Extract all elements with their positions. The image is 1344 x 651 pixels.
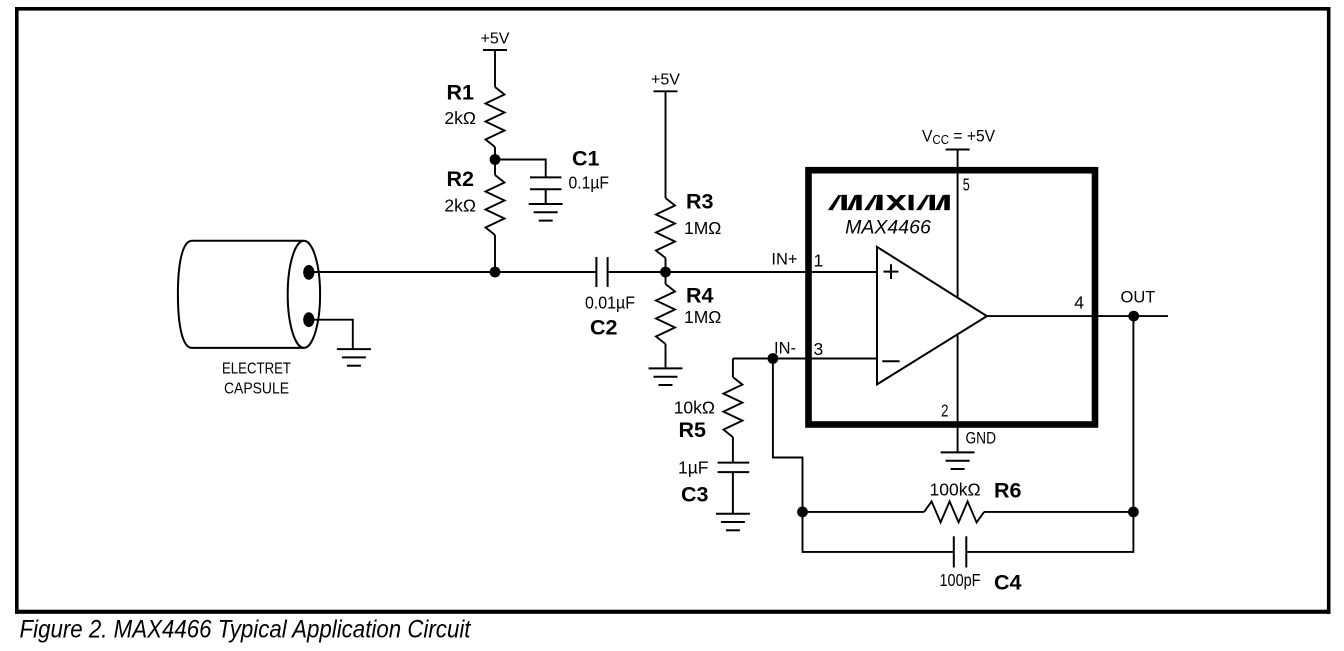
- wire: R6 to right junction: [984, 511, 1133, 513]
- wire: C4 branch right up to OUT: [966, 316, 1133, 552]
- label 100pF (C4): [940, 570, 981, 590]
- svg-text:0.01µF: 0.01µF: [585, 293, 635, 313]
- svg-text:OUT: OUT: [1121, 289, 1156, 307]
- pin 4: [1074, 293, 1084, 313]
- label ELECTRET CAPSULE: [222, 361, 291, 398]
- resistor R6: [924, 501, 984, 522]
- wire: output pin 4 to OUT: [987, 315, 1168, 317]
- svg-text:3: 3: [814, 339, 824, 359]
- label +5V (R1 supply): [481, 31, 510, 48]
- label +5V (R3 supply): [651, 72, 680, 89]
- wire junction to C1: [495, 160, 546, 178]
- node: feedback left junction: [797, 507, 808, 518]
- svg-text:IN+: IN+: [771, 251, 797, 269]
- wire VCC vertical (pin 5): [957, 150, 959, 453]
- caption: Figure 2. MAX4466 Typical Application Circuit: [20, 616, 472, 644]
- ground (R4): [649, 368, 683, 385]
- wire: C2 to IN+ pin: [608, 271, 877, 273]
- label 0.01uF (C2): [585, 293, 635, 313]
- node: R2 bottom / signal wire junction: [490, 267, 501, 278]
- label VCC = +5V: [922, 127, 995, 147]
- resistor R5: [723, 359, 742, 463]
- op-amp U1 package box (MAX4466): [809, 170, 1096, 424]
- wire electret bottom pin to ground: [309, 320, 353, 349]
- svg-text:10kΩ: 10kΩ: [674, 398, 715, 418]
- svg-text:1: 1: [814, 251, 824, 271]
- pin 2: [941, 401, 949, 421]
- resistor R3: [656, 198, 675, 272]
- svg-text:2kΩ: 2kΩ: [444, 196, 476, 216]
- node: OUT junction: [1128, 311, 1139, 322]
- capacitor C4: [954, 536, 967, 567]
- label OUT: [1121, 289, 1156, 307]
- pin 3: [814, 339, 824, 359]
- label 2kOhm (R1): [444, 108, 476, 128]
- svg-text:4: 4: [1074, 293, 1084, 313]
- svg-text:ELECTRET: ELECTRET: [222, 361, 291, 378]
- VCC supply bar: [946, 149, 970, 151]
- label 100kOhm (R6): [930, 480, 981, 500]
- label R6: [994, 479, 1022, 503]
- svg-text:GND: GND: [966, 430, 997, 448]
- svg-text:R6: R6: [994, 479, 1022, 503]
- electret terminal pin (bottom, ground): [303, 312, 314, 327]
- svg-text:C4: C4: [994, 571, 1022, 595]
- label R5: [679, 418, 707, 442]
- svg-text:+5V: +5V: [481, 31, 510, 48]
- svg-text:R2: R2: [447, 167, 475, 191]
- ground (electret): [337, 349, 371, 366]
- label C2: [590, 316, 618, 340]
- capacitor C3: [718, 463, 750, 514]
- label R3: [686, 190, 714, 214]
- minus input marker: [882, 360, 899, 362]
- electret terminal pin (top, signal): [303, 265, 314, 280]
- label C1: [572, 147, 600, 171]
- wire: C4 branch left: [803, 512, 954, 552]
- label C3: [681, 483, 709, 507]
- svg-text:2kΩ: 2kΩ: [444, 108, 476, 128]
- label C4: [994, 571, 1022, 595]
- resistor R1: [486, 87, 505, 160]
- svg-text:R4: R4: [686, 284, 714, 308]
- node: IN- junction: [768, 353, 779, 364]
- label 0.1uF (C1): [569, 173, 610, 193]
- wire: feedback node to R6: [803, 511, 925, 513]
- pin 1: [814, 251, 824, 271]
- capacitor C1: [530, 177, 562, 204]
- supply +5V (R1 top): [483, 50, 507, 87]
- label 2kOhm (R2): [444, 196, 476, 216]
- label 1uF (C3): [678, 458, 709, 478]
- wire: IN- junction down to feedback node: [773, 359, 803, 512]
- svg-text:R3: R3: [686, 190, 714, 214]
- op-amp triangle: [877, 247, 987, 385]
- MAXIM logo: [828, 195, 950, 210]
- electret capsule body: [178, 241, 320, 348]
- wire: signal line electret to C2: [309, 271, 597, 273]
- capacitor C2: [596, 257, 607, 287]
- svg-text:100kΩ: 100kΩ: [930, 480, 981, 500]
- node: R3/R4/signal junction: [660, 267, 671, 278]
- svg-text:C3: C3: [681, 483, 709, 507]
- svg-text:1MΩ: 1MΩ: [684, 218, 721, 238]
- label IN+: [771, 251, 797, 269]
- svg-text:2: 2: [941, 401, 949, 421]
- ground (C1): [529, 204, 563, 221]
- svg-text:MAX4466: MAX4466: [845, 217, 931, 239]
- wire: IN- net: [733, 358, 877, 360]
- svg-text:R1: R1: [447, 81, 475, 105]
- resistor R4: [656, 272, 675, 368]
- svg-text:0.1µF: 0.1µF: [569, 173, 610, 193]
- resistor R2: [486, 160, 505, 273]
- svg-text:C2: C2: [590, 316, 618, 340]
- svg-text:Figure 2. MAX4466 Typical Appl: Figure 2. MAX4466 Typical Application Ci…: [20, 616, 472, 644]
- label MAX4466: [845, 217, 931, 239]
- label R1: [447, 81, 475, 105]
- ground (C3): [716, 514, 750, 531]
- label 1MOhm (R4): [684, 307, 721, 327]
- pin 5: [963, 175, 970, 195]
- svg-text:1MΩ: 1MΩ: [684, 307, 721, 327]
- label GND: [966, 430, 997, 448]
- label R4: [686, 284, 714, 308]
- node: feedback right junction: [1128, 507, 1139, 518]
- svg-text:100pF: 100pF: [940, 570, 981, 590]
- svg-text:+5V: +5V: [651, 72, 680, 89]
- ground (GND pin): [941, 452, 975, 469]
- label 1MOhm (R3): [684, 218, 721, 238]
- node: R1/R2/C1 junction: [490, 154, 501, 165]
- svg-text:C1: C1: [572, 147, 600, 171]
- svg-text:1µF: 1µF: [678, 458, 709, 478]
- svg-text:IN-: IN-: [774, 340, 796, 358]
- svg-text:5: 5: [963, 175, 970, 195]
- label 10kOhm (R5): [674, 398, 715, 418]
- plus input marker: [884, 264, 899, 279]
- label IN-: [774, 340, 796, 358]
- svg-text:R5: R5: [679, 418, 707, 442]
- supply +5V (R3 top): [654, 91, 678, 198]
- svg-text:CAPSULE: CAPSULE: [224, 381, 289, 398]
- label R2: [447, 167, 475, 191]
